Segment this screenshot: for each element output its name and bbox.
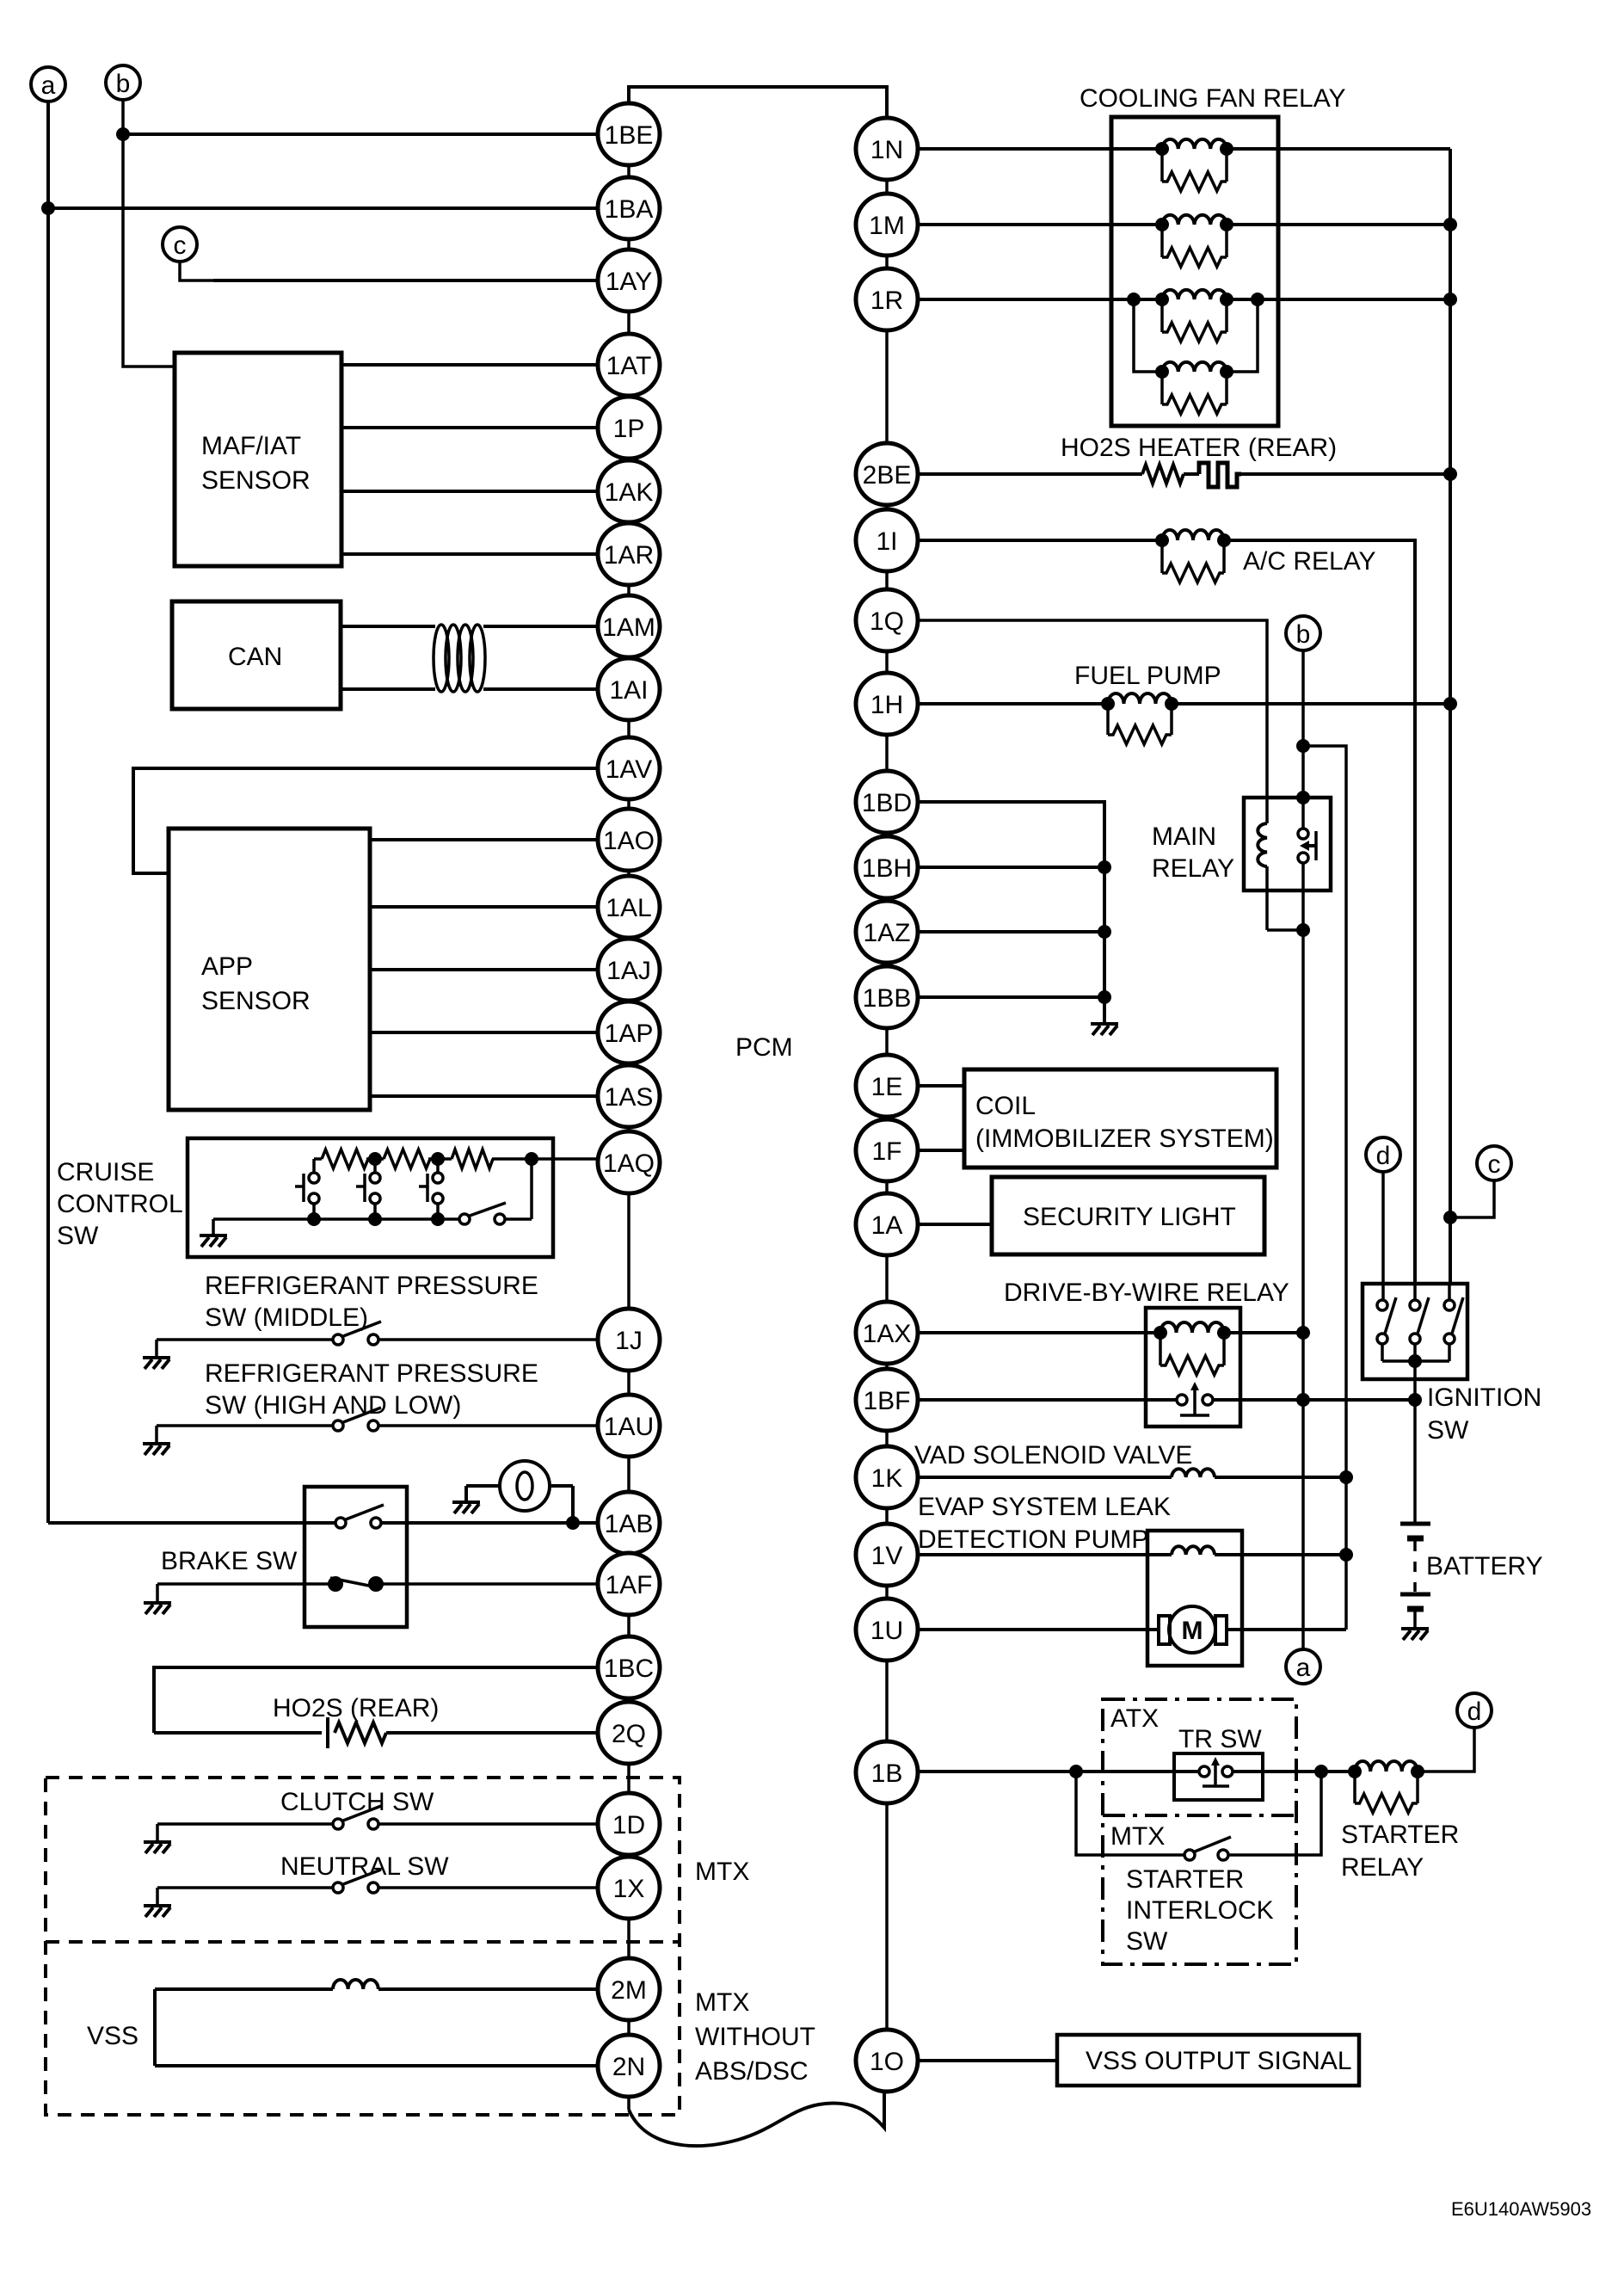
PCM pin 1AQ: [598, 1131, 660, 1193]
PCM pin 1BA: [598, 177, 660, 239]
bulb (stop lamp): [466, 1461, 573, 1523]
svg-text:1AQ: 1AQ: [603, 1149, 655, 1178]
PCM pin 1BF: [856, 1369, 918, 1431]
clutch switch on 1D: [157, 1822, 333, 1826]
svg-text:SW: SW: [57, 1222, 99, 1250]
svg-text:1E: 1E: [871, 1073, 903, 1101]
fan relay resistor 1: [1162, 149, 1227, 191]
PCM pin 1AS: [598, 1065, 660, 1127]
wire 1F to coil box: [918, 1149, 964, 1152]
battery symbol: [1400, 1524, 1430, 1627]
svg-text:BRAKE SW: BRAKE SW: [161, 1547, 298, 1575]
cruise push switch 3: [419, 1159, 443, 1219]
PCM pin 1O: [856, 2030, 918, 2092]
cruise resistor R2: [384, 1149, 430, 1168]
wire 1BC elbow down to HO2S: [154, 1667, 598, 1733]
wire 1E to coil box: [918, 1084, 964, 1088]
svg-text:RELAY: RELAY: [1341, 1853, 1424, 1882]
fan relay coil 3: [1162, 290, 1227, 299]
MAF/IAT sensor box: [175, 353, 341, 566]
brake switch upper contact on 1AB: [48, 1521, 335, 1525]
wire net-c elbow from circle c to 1AY wire: [180, 262, 215, 280]
svg-text:SW (HIGH AND LOW): SW (HIGH AND LOW): [205, 1391, 461, 1420]
PCM pin 1BC: [598, 1636, 660, 1698]
svg-text:TR SW: TR SW: [1178, 1725, 1262, 1753]
svg-text:1O: 1O: [870, 2048, 904, 2076]
svg-text:CONTROL: CONTROL: [57, 1190, 183, 1218]
starter relay coil: [1355, 1761, 1418, 1772]
PCM pin 1AF: [598, 1553, 660, 1615]
svg-text:HO2S HEATER (REAR): HO2S HEATER (REAR): [1061, 434, 1337, 462]
svg-text:1F: 1F: [871, 1137, 901, 1166]
svg-text:2BE: 2BE: [863, 461, 912, 490]
ignition output down to battery: [1413, 1361, 1417, 1523]
PCM pin 2N: [598, 2035, 660, 2097]
wire 1O to VSS output signal box: [918, 2059, 1057, 2062]
svg-text:1AY: 1AY: [606, 268, 652, 296]
PCM top jumper from 1BE over to 1N: [629, 87, 887, 118]
wire APP to 1AS: [370, 1094, 598, 1098]
svg-text:INTERLOCK: INTERLOCK: [1126, 1896, 1274, 1925]
fan relay coil 4 (parallel lower unit): [1134, 299, 1258, 372]
wire CAN to 1AM (upper of twisted pair): [341, 625, 435, 628]
PCM pin 1E: [856, 1055, 918, 1117]
main relay contact: [1298, 829, 1316, 863]
svg-text:MAIN: MAIN: [1152, 823, 1216, 851]
svg-text:1BF: 1BF: [863, 1387, 910, 1415]
starter relay resistor: [1355, 1772, 1418, 1813]
svg-text:VAD SOLENOID VALVE: VAD SOLENOID VALVE: [914, 1441, 1192, 1470]
A/C relay resistor: [1162, 540, 1224, 582]
EVAP pump box: [1147, 1531, 1242, 1666]
svg-text:1BA: 1BA: [605, 195, 654, 224]
net-d vertical to ignition switch: [1381, 1172, 1385, 1300]
svg-text:1AV: 1AV: [606, 755, 652, 784]
wire 1AY to node c: [213, 279, 598, 282]
svg-text:1A: 1A: [871, 1211, 903, 1240]
svg-text:RELAY: RELAY: [1152, 854, 1234, 883]
wire APP to 1AP: [370, 1031, 598, 1034]
PCM pin 2Q: [598, 1702, 660, 1764]
svg-text:A/C RELAY: A/C RELAY: [1243, 547, 1376, 576]
svg-text:b: b: [116, 70, 131, 98]
PCM pin 1F: [856, 1119, 918, 1181]
wire net-a vertical from circle a down to brake switch row: [46, 102, 50, 1523]
svg-text:1AP: 1AP: [605, 1020, 654, 1048]
wire 1BA to node a: [48, 206, 598, 210]
svg-text:1AS: 1AS: [605, 1083, 654, 1112]
junction dot b/1BE: [116, 127, 130, 141]
svg-text:STARTER: STARTER: [1126, 1865, 1244, 1894]
wire motor to feed rail: [1227, 1628, 1346, 1631]
svg-text:2Q: 2Q: [612, 1720, 646, 1748]
PCM pin 1AI: [598, 658, 660, 720]
fuel pump coil: [1108, 693, 1172, 704]
PCM pin 1AM: [598, 595, 660, 657]
ground for bulb: [452, 1502, 480, 1513]
APP sensor box: [169, 829, 370, 1110]
main relay box: [1244, 798, 1331, 890]
node b (top-left source circle): [106, 65, 140, 100]
CAN box: [172, 601, 341, 709]
HO2S (REAR) sensor cell + resistor on 2Q: [154, 1731, 322, 1735]
svg-text:SW: SW: [1126, 1927, 1168, 1956]
COIL (IMMOBILIZER SYSTEM) box: [964, 1069, 1276, 1168]
wire A/C relay output down to ignition switch: [1224, 540, 1415, 1285]
svg-text:VSS: VSS: [87, 2022, 138, 2050]
svg-text:1BE: 1BE: [605, 121, 654, 150]
PCM pin 1BH: [856, 836, 918, 898]
wire starter relay up to node d: [1418, 1728, 1474, 1772]
svg-text:1AM: 1AM: [602, 613, 655, 642]
wire heater to bus: [1241, 472, 1450, 476]
svg-text:1AF: 1AF: [605, 1571, 652, 1599]
svg-text:APP: APP: [201, 952, 253, 981]
svg-text:c: c: [1488, 1150, 1501, 1179]
cooling fan relay box: [1111, 117, 1278, 426]
PCM pin 1AL: [598, 876, 660, 938]
PCM pin 1V: [856, 1524, 918, 1586]
brake switch lower contact on 1AF: [157, 1582, 329, 1586]
wire 1AV elbow to APP sensor box: [133, 768, 598, 873]
MTX bypass branch with starter interlock switch: [1076, 1772, 1184, 1855]
cruise ground: [212, 1219, 215, 1234]
wire 1AZ: [918, 930, 1104, 934]
wire fuel pump to bus: [1172, 702, 1450, 706]
node d (top source circle): [1366, 1137, 1400, 1172]
PCM pin 1N: [856, 118, 918, 180]
fan relay resistor 4: [1162, 372, 1227, 414]
SECURITY LIGHT box: [992, 1177, 1264, 1254]
svg-text:1AU: 1AU: [604, 1413, 654, 1441]
fan relay coil 1: [1162, 139, 1227, 149]
HO2S heater element: [1184, 472, 1199, 476]
PCM pin 1AZ: [856, 901, 918, 963]
PCM pin 1B: [856, 1741, 918, 1803]
svg-text:1AL: 1AL: [606, 894, 651, 922]
PCM pin 1R: [856, 268, 918, 330]
DBW relay resistor: [1160, 1333, 1224, 1375]
MTX WITHOUT ABS/DSC dashed box divider: [46, 1940, 680, 1944]
wire DBW contact to ignition output: [1213, 1398, 1415, 1402]
svg-text:1BB: 1BB: [863, 984, 912, 1013]
svg-text:IGNITION: IGNITION: [1427, 1383, 1541, 1412]
svg-text:FUEL PUMP: FUEL PUMP: [1074, 662, 1221, 690]
svg-text:MTX: MTX: [695, 1988, 749, 2017]
svg-text:ABS/DSC: ABS/DSC: [695, 2057, 809, 2086]
svg-text:SECURITY LIGHT: SECURITY LIGHT: [1023, 1203, 1236, 1231]
svg-text:1H: 1H: [870, 691, 903, 719]
fuel pump resistor: [1108, 704, 1172, 744]
svg-text:1K: 1K: [871, 1464, 903, 1493]
svg-text:1P: 1P: [613, 415, 645, 443]
svg-text:1AI: 1AI: [609, 676, 648, 705]
svg-text:a: a: [41, 71, 56, 100]
VAD solenoid coil: [1172, 1469, 1215, 1477]
wire 1N to fan relay coil 1: [918, 147, 1162, 151]
ATX/MTX divider dash-dot line: [1103, 1814, 1296, 1817]
svg-text:1X: 1X: [613, 1875, 645, 1903]
wire TR switch to starter relay: [1233, 1770, 1355, 1773]
svg-text:ATX: ATX: [1110, 1704, 1159, 1733]
svg-text:CAN: CAN: [228, 643, 282, 671]
brake switch box: [304, 1487, 407, 1627]
svg-text:CLUTCH SW: CLUTCH SW: [280, 1788, 434, 1816]
svg-text:a: a: [1296, 1654, 1311, 1682]
fan relay resistor 2: [1162, 225, 1227, 267]
wire MAF to 1P: [341, 426, 598, 429]
DBW relay contact: [1177, 1382, 1213, 1415]
svg-text:E6U140AW5903: E6U140AW5903: [1451, 2198, 1591, 2220]
svg-text:1BD: 1BD: [862, 789, 912, 817]
svg-text:1N: 1N: [870, 136, 903, 164]
cruise resistor R3: [452, 1149, 493, 1168]
svg-text:VSS OUTPUT SIGNAL: VSS OUTPUT SIGNAL: [1086, 2047, 1352, 2075]
ignition switch pole 2: [1410, 1285, 1429, 1361]
svg-text:SW: SW: [1427, 1416, 1469, 1445]
svg-text:1AK: 1AK: [605, 478, 654, 507]
junction dot bulb/1AB: [566, 1516, 580, 1530]
wire 1R to fan relay coil 3: [918, 298, 1162, 301]
ignition switch common rail: [1382, 1359, 1449, 1363]
PCM pin 1AP: [598, 1001, 660, 1063]
svg-text:1AB: 1AB: [605, 1510, 654, 1538]
main relay coil (vertical): [1258, 823, 1267, 866]
svg-text:M: M: [1182, 1617, 1203, 1645]
PCM pin 1AB: [598, 1492, 660, 1554]
svg-text:SENSOR: SENSOR: [201, 987, 311, 1015]
wire VAD to feed rail: [1215, 1476, 1346, 1479]
net-b vertical down to main relay and circle a: [1301, 650, 1305, 829]
svg-text:d: d: [1467, 1698, 1482, 1726]
neutral switch on 1X: [157, 1886, 333, 1889]
PCM pin 2BE: [856, 443, 918, 505]
wire 1BD elbow to ground rail: [918, 802, 1104, 1022]
svg-text:REFRIGERANT PRESSURE: REFRIGERANT PRESSURE: [205, 1272, 538, 1300]
PCM pin 1AX: [856, 1302, 918, 1364]
TR switch contact: [1199, 1757, 1233, 1786]
svg-text:PCM: PCM: [735, 1033, 793, 1062]
main relay coil return junction: [1267, 928, 1303, 932]
wire 1B to TR switch: [918, 1770, 1199, 1773]
node a (top-left source circle): [31, 67, 65, 102]
PCM pin 1AT: [598, 334, 660, 396]
wire 1A to security light box: [918, 1223, 992, 1226]
refrigerant pressure switch (middle) on 1J: [157, 1338, 333, 1341]
svg-text:1I: 1I: [876, 527, 897, 556]
VSS return wire to 2N: [155, 2064, 598, 2067]
wire 1I to A/C relay coil: [918, 539, 1162, 542]
TR SW box: [1174, 1753, 1263, 1800]
svg-text:1V: 1V: [871, 1542, 903, 1570]
branch from net-b to solenoid feed rail: [1303, 746, 1346, 1630]
wire DBW coil to net-b: [1224, 1331, 1303, 1334]
node c (right side source circle): [1477, 1146, 1511, 1180]
svg-text:1AJ: 1AJ: [606, 957, 651, 985]
cruise push switch 2: [356, 1159, 380, 1219]
svg-text:REFRIGERANT PRESSURE: REFRIGERANT PRESSURE: [205, 1359, 538, 1388]
svg-text:1AR: 1AR: [604, 541, 654, 570]
cruise control switch box: [188, 1138, 553, 1257]
MTX dashed box: [46, 1778, 680, 2115]
PCM pin 1AU: [598, 1395, 660, 1457]
PCM pin 1M: [856, 194, 918, 256]
node b (right side source circle): [1286, 616, 1320, 650]
cruise resistor R1: [322, 1149, 368, 1168]
svg-text:HO2S (REAR): HO2S (REAR): [273, 1694, 439, 1722]
net-c elbow joining battery bus: [1450, 1180, 1494, 1217]
junction dot a/1BA: [41, 201, 55, 215]
wire coil3 to right bus: [1227, 298, 1450, 301]
wire CAN to 1AI (lower of twisted pair): [341, 687, 435, 691]
wire 1AX to DBW coil: [918, 1331, 1160, 1334]
fan relay resistor 3: [1162, 299, 1227, 342]
twisted pair symbol on CAN lines: [434, 625, 485, 692]
wire 1BE to node b: [123, 132, 598, 136]
svg-text:BATTERY: BATTERY: [1426, 1552, 1543, 1581]
svg-text:MTX: MTX: [1110, 1822, 1165, 1851]
fan relay coil 2: [1162, 215, 1227, 225]
ATX dash-dot box: [1103, 1699, 1296, 1964]
cruise push switch 1: [295, 1159, 319, 1219]
PCM pin 1U: [856, 1599, 918, 1661]
wire 1Q to main relay coil: [918, 620, 1267, 823]
svg-text:1M: 1M: [869, 212, 905, 240]
svg-text:1D: 1D: [612, 1811, 645, 1839]
PCM pin 1I: [856, 509, 918, 571]
svg-text:CRUISE: CRUISE: [57, 1158, 154, 1186]
svg-text:1AX: 1AX: [863, 1320, 912, 1348]
svg-text:c: c: [174, 231, 187, 260]
PCM pin 1BE: [598, 103, 660, 165]
ground for battery: [1401, 1629, 1429, 1640]
DBW relay coil: [1160, 1322, 1224, 1333]
ground for clutch switch: [156, 1824, 159, 1840]
node d (bottom destination circle): [1457, 1693, 1492, 1728]
svg-text:COIL: COIL: [975, 1092, 1036, 1120]
wire MAF to 1AK: [341, 490, 598, 493]
wire 1U to pump motor: [918, 1628, 1159, 1631]
svg-text:MTX: MTX: [695, 1858, 749, 1886]
PCM pin 1H: [856, 673, 918, 735]
ignition switch box: [1363, 1284, 1467, 1379]
svg-text:1AO: 1AO: [603, 827, 655, 855]
svg-text:1AZ: 1AZ: [863, 919, 910, 947]
svg-text:1R: 1R: [870, 287, 903, 315]
PCM pin 1AR: [598, 523, 660, 585]
wire APP to 1AL: [370, 905, 598, 909]
cruise top resistor rail to 1AQ: [314, 1157, 322, 1161]
wire 2BE to heater: [918, 472, 1142, 476]
ignition switch pole 1: [1377, 1297, 1396, 1361]
VSS OUTPUT SIGNAL box: [1057, 2035, 1359, 2086]
A/C relay coil: [1162, 530, 1224, 540]
wire net-b vertical from circle b down to MAF/IAT box: [123, 100, 175, 367]
svg-text:1Q: 1Q: [870, 607, 904, 636]
PCM pin 1K: [856, 1446, 918, 1508]
svg-text:(IMMOBILIZER SYSTEM): (IMMOBILIZER SYSTEM): [975, 1125, 1274, 1153]
wire EVAP coil to feed rail: [1215, 1553, 1346, 1556]
junction dots on cruise rail: [368, 1152, 382, 1166]
PCM pin 1J: [598, 1309, 660, 1371]
svg-text:EVAP SYSTEM LEAK: EVAP SYSTEM LEAK: [918, 1493, 1171, 1521]
svg-text:1J: 1J: [615, 1327, 643, 1355]
HO2S heater resistor: [1142, 465, 1184, 484]
PCM pin 1AY: [598, 250, 660, 311]
cruise main switch: [459, 1159, 532, 1224]
svg-text:SENSOR: SENSOR: [201, 466, 311, 495]
svg-text:DETECTION PUMP: DETECTION PUMP: [918, 1525, 1148, 1554]
EVAP pump coil: [1172, 1546, 1215, 1555]
PCM pin 1P: [598, 397, 660, 459]
wire MAF to 1AR: [341, 552, 598, 556]
pump motor M: [1159, 1606, 1227, 1653]
drive-by-wire relay box: [1146, 1308, 1240, 1427]
PCM pin 1X: [598, 1857, 660, 1919]
wire 1BB: [918, 995, 1104, 999]
PCM right column rail: [885, 118, 889, 2092]
svg-text:STARTER: STARTER: [1341, 1821, 1459, 1849]
VSS coil wire to 2M: [155, 1987, 333, 1991]
svg-text:1BC: 1BC: [604, 1655, 654, 1683]
svg-text:WITHOUT: WITHOUT: [695, 2023, 815, 2051]
PCM left column rail: [627, 103, 631, 2110]
wire 1H to fuel pump: [918, 702, 1108, 706]
svg-text:b: b: [1296, 620, 1311, 649]
PCM pin 1Q: [856, 589, 918, 651]
PCM pin 1AK: [598, 460, 660, 522]
svg-text:DRIVE-BY-WIRE RELAY: DRIVE-BY-WIRE RELAY: [1004, 1279, 1289, 1307]
PCM pin 1A: [856, 1193, 918, 1255]
PCM pin 1AJ: [598, 939, 660, 1001]
svg-text:2M: 2M: [611, 1976, 647, 2005]
cruise bottom rail: [213, 1217, 459, 1221]
wire MAF to 1AT: [341, 363, 598, 367]
ground for 1AU switch: [155, 1426, 158, 1442]
node a (right side destination circle): [1286, 1649, 1320, 1684]
ground for 1BD/1BH/1AZ/1BB: [1091, 1024, 1118, 1035]
node c (source circle near 1AY): [163, 227, 197, 262]
wire 1M to fan relay coil 2: [918, 223, 1162, 226]
wire coil1 to right bus: [1227, 147, 1450, 151]
PCM pin 1D: [598, 1793, 660, 1855]
wire 1K to VAD solenoid: [918, 1476, 1172, 1479]
svg-text:1B: 1B: [871, 1759, 903, 1788]
svg-text:SW (MIDDLE): SW (MIDDLE): [205, 1303, 368, 1332]
svg-text:COOLING FAN RELAY: COOLING FAN RELAY: [1080, 84, 1346, 113]
PCM pin 1BB: [856, 966, 918, 1028]
svg-text:1AT: 1AT: [606, 352, 652, 380]
svg-text:2N: 2N: [612, 2053, 645, 2081]
wire APP to 1AJ: [370, 968, 598, 971]
VSS left vertical: [153, 1989, 157, 2066]
squiggle continuation between column bottoms: [629, 2092, 884, 2146]
PCM pin 1AV: [598, 737, 660, 799]
ground for neutral switch: [156, 1888, 159, 1904]
PCM pin 1AO: [598, 809, 660, 871]
PCM pin 2M: [598, 1958, 660, 2020]
wire 1BH: [918, 866, 1104, 869]
refrigerant pressure switch (high/low) on 1AU: [157, 1424, 333, 1427]
ignition switch pole 3: [1444, 1285, 1463, 1361]
svg-text:1BH: 1BH: [862, 854, 912, 883]
svg-text:1U: 1U: [870, 1617, 903, 1645]
wire 1V to EVAP coil: [918, 1553, 1172, 1556]
battery bus vertical (right edge): [1449, 149, 1452, 1285]
ground for 1J switch: [155, 1340, 158, 1356]
svg-text:d: d: [1376, 1142, 1391, 1170]
wire coil2 to right bus: [1227, 223, 1450, 226]
